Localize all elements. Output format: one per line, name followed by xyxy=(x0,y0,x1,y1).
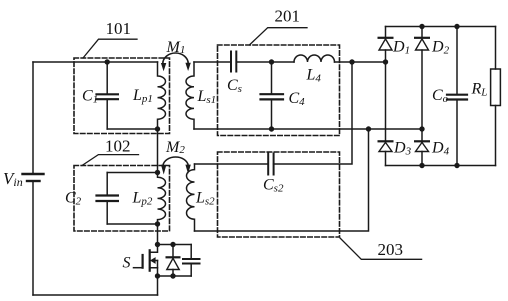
node bottom rail Co xyxy=(454,163,459,168)
node A junction Cs2 branch xyxy=(349,59,354,64)
inductor Lp1 xyxy=(158,62,166,129)
inductor Ls1 xyxy=(186,62,194,129)
node B bridge input xyxy=(419,126,424,131)
wire Cs2 to node A xyxy=(274,62,352,164)
node Ls2 return junction xyxy=(366,126,371,131)
svg-text:101: 101 xyxy=(106,19,132,38)
wire bottom return xyxy=(33,294,158,296)
label 102 leader xyxy=(82,155,139,166)
wire B lower output xyxy=(194,128,422,130)
dashed box 102 xyxy=(74,166,170,232)
label 201 leader xyxy=(250,28,308,45)
capacitor C2 xyxy=(97,173,118,225)
node body diode top xyxy=(170,242,175,247)
wire switch source to return xyxy=(157,276,159,295)
wire L4 to bridge node A xyxy=(335,61,386,63)
svg-text:201: 201 xyxy=(275,7,301,26)
diode D3 xyxy=(379,141,393,165)
wire switch bottom stub xyxy=(158,275,192,277)
node Lp2 top xyxy=(155,170,160,175)
wire Lp1 to Lp2 xyxy=(157,129,159,173)
node Lp2 bottom xyxy=(155,221,160,226)
node bottom rail D4 xyxy=(419,163,424,168)
snubber capacitor of S xyxy=(183,245,200,277)
capacitor Cs2 xyxy=(268,154,273,175)
capacitor Co xyxy=(447,27,467,166)
battery Vin xyxy=(23,62,44,295)
svg-text:203: 203 xyxy=(378,240,404,259)
node Lp1 bottom xyxy=(155,126,160,131)
wire 101 bottom xyxy=(107,128,157,130)
coupling M2 arrow xyxy=(161,157,191,175)
label 101 leader xyxy=(83,39,137,58)
wire switch top stub xyxy=(158,244,192,246)
inductor Lp2 xyxy=(158,173,166,225)
diode D2 xyxy=(415,27,429,142)
wire Ls1 top to Cs xyxy=(194,61,231,63)
wire Ls2 to Cs2 xyxy=(195,163,269,165)
capacitor Cs xyxy=(231,52,236,72)
node C4 top xyxy=(269,59,274,64)
svg-text:102: 102 xyxy=(105,136,131,155)
wire 102 bottom xyxy=(107,223,157,225)
wire bridge top rail xyxy=(386,26,496,28)
inductor Ls2 xyxy=(187,164,195,231)
dashed box 101 xyxy=(74,58,170,134)
wire bridge bottom rail xyxy=(386,165,496,167)
wire top input xyxy=(33,61,158,63)
inductor L4 xyxy=(294,55,335,62)
capacitor C1 xyxy=(97,62,118,129)
coupling M1 arrow xyxy=(161,53,191,71)
resistor RL xyxy=(491,27,501,166)
node top rail Co xyxy=(454,24,459,29)
node body diode bottom xyxy=(170,273,175,278)
diode D1 xyxy=(379,27,393,142)
diode D4 xyxy=(415,141,429,165)
svg-text:S: S xyxy=(123,255,131,272)
node A bridge input xyxy=(383,59,388,64)
mosfet S xyxy=(134,224,158,276)
node top rail D2 xyxy=(419,24,424,29)
dashed box 203 xyxy=(218,152,340,237)
body diode of S xyxy=(167,245,180,277)
dashed box 201 xyxy=(218,45,340,136)
wire C2 top xyxy=(107,172,157,174)
node C4 bottom xyxy=(269,126,274,131)
wire Ls2 bottom to node B xyxy=(195,129,369,231)
label 203 leader xyxy=(340,238,422,259)
node switch drain xyxy=(155,242,160,247)
node C1 top xyxy=(105,59,110,64)
node switch source xyxy=(155,273,160,278)
wire Cs to L4 xyxy=(236,61,294,63)
capacitor C4 xyxy=(261,62,284,129)
